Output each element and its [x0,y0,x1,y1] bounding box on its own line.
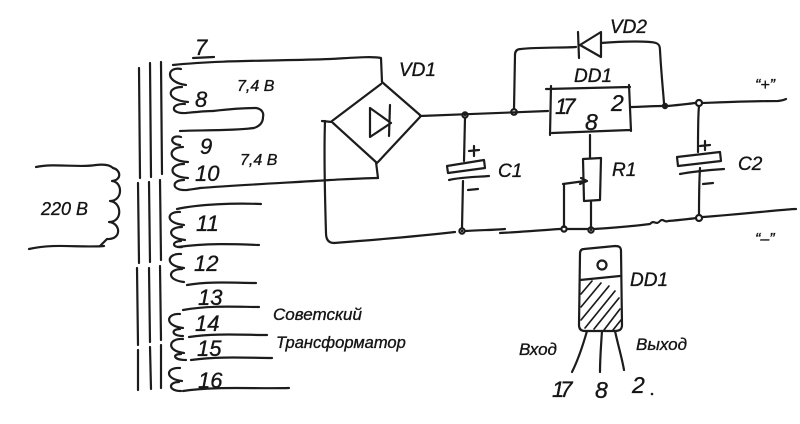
svg-text:8: 8 [585,109,598,135]
IC DD1 box [546,85,631,135]
wire: tap 14 [183,307,259,310]
svg-text:12: 12 [194,251,218,276]
wire: R1 bottom [590,201,592,228]
wire: wiper to bottom rail [563,184,565,227]
svg-text:VD2: VD2 [610,17,647,38]
svg-text:7,4 В: 7,4 В [240,152,278,169]
package leg 8 [600,331,602,372]
package leg 2 [615,331,624,370]
wire: primary top lead [36,165,113,168]
wire: tap 11 [177,204,261,209]
svg-text:7: 7 [195,35,208,60]
wire: C1 top [464,118,465,161]
svg-text:2: 2 [631,372,645,398]
wire: VD2 left branch [514,47,576,109]
svg-text:7,4 В: 7,4 В [237,78,275,95]
svg-text:10: 10 [195,161,220,186]
package hole [598,261,607,270]
wire: C1 bottom [462,181,463,228]
wire: bottom tap [183,388,289,391]
wire: bottom rail [334,209,796,243]
svg-text:220 В: 220 В [40,199,88,219]
svg-text:17: 17 [555,94,576,119]
wire: tap 8 with return hook to tap 9 [180,108,263,131]
wire: bridge left corner down to bottom rail [325,121,334,243]
wire: DD1 output to node [631,106,662,107]
capacitor C1 bottom plate [449,176,489,180]
C2 plus sign [700,141,710,150]
svg-text:C1: C1 [498,161,522,182]
svg-text:9: 9 [200,134,212,159]
winding 7-8 [170,69,213,113]
transformer core line 3 [160,62,162,388]
wire: primary bottom lead [29,246,104,249]
C2 minus sign [703,183,713,184]
C1 minus sign [468,189,478,190]
svg-text:8: 8 [195,87,208,112]
diode VD2 cathode bar [578,32,579,58]
svg-text:8: 8 [595,377,608,403]
package leg 17 [572,331,587,372]
svg-text:17: 17 [552,377,573,402]
wire: C2 top [698,106,699,152]
node: junction R1 bottom [588,227,593,232]
svg-text:Вход: Вход [519,340,557,359]
svg-text:“–”: “–” [755,231,775,248]
node: junction output (filled) [662,103,668,109]
svg-text:C2: C2 [738,154,763,175]
wire: tap 7 to bridge top [173,57,382,82]
node: junction C1 top [462,112,467,117]
node: junction C2 top [696,100,702,106]
winding 11 [170,212,185,247]
svg-text:R1: R1 [612,160,636,181]
capacitor C1 top plate [447,160,485,173]
winding 9-10 [172,136,200,190]
winding 12 [170,254,184,282]
transformer primary winding [100,168,120,246]
diode VD2 triangle [580,32,601,57]
wire: tap 13 [187,283,256,286]
node: junction C2 bottom [696,215,702,221]
winding 14 [169,314,183,336]
regulator package DD1 body [579,246,622,331]
svg-text:11: 11 [196,211,219,236]
node: junction C1 bottom [459,228,464,233]
bridge rectifier VD1 diamond [322,82,420,178]
capacitor C2 bottom plate [680,169,724,174]
svg-text:VD1: VD1 [399,60,436,81]
wire: tap 12 [178,244,259,247]
capacitor C2 top plate [677,152,721,166]
svg-text:Советский: Советский [273,305,362,324]
svg-text:2: 2 [610,90,624,116]
wire: tap 10 to bridge bottom [200,178,378,188]
wire: C2 bottom [699,168,700,215]
wire: bridge output to DD1 input [420,111,548,116]
node: junction VD2 left [511,109,517,115]
svg-text:DD1: DD1 [630,270,668,291]
wire: DD1 pin 8 to R1 [589,135,591,158]
label 7 underline [193,57,214,58]
diode symbol inside VD1 [370,105,391,137]
node: junction R1 wiper [561,226,566,231]
svg-text:Трансформатор: Трансформатор [276,334,406,352]
R1 wiper arrow [563,178,587,184]
wire: tap 16 [191,358,272,361]
transformer core line 2 [149,63,151,389]
wire: tap 15 [189,335,267,338]
svg-text:DD1: DD1 [574,66,612,87]
svg-text:“+”: “+” [755,77,776,94]
package hatching [581,281,621,330]
svg-text:14: 14 [195,311,219,336]
package tab line [580,276,620,280]
winding 15 [171,339,186,360]
pin number 2 dot [651,393,654,396]
C1 plus sign [469,146,479,156]
wire: VD2 right branch [601,42,664,104]
resistor R1 [583,158,601,201]
wire: top rail to C2 junction and output [668,99,786,106]
transformer core line 1 [137,68,140,390]
svg-text:Выход: Выход [636,335,687,354]
winding 16 [169,368,182,391]
